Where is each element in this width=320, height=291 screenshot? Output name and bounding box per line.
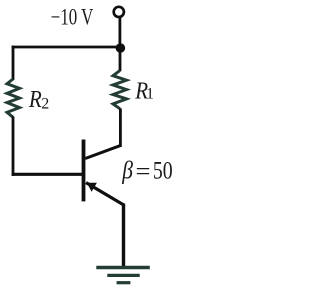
wire left vertical upper [12, 46, 15, 80]
transistor Q1 emitter lead [86, 183, 124, 206]
svg-text:1: 1 [146, 86, 154, 103]
terminal T1 (-10 V supply terminal) [114, 7, 124, 17]
svg-text:2: 2 [41, 95, 49, 112]
transistor Q1 emitter arrowhead (PNP) [87, 183, 97, 192]
svg-text:=: = [136, 159, 151, 186]
resistor R1 [113, 70, 127, 108]
node A junction dot [116, 43, 126, 53]
wire left vertical lower [12, 117, 15, 176]
resistor R2 [7, 79, 20, 117]
svg-text:−10 V: −10 V [51, 4, 94, 29]
wire base horizontal [12, 173, 82, 176]
wire emitter vertical [122, 204, 125, 268]
ground bar 3 [117, 281, 131, 284]
ground bar 1 [96, 266, 150, 270]
svg-text:R: R [28, 86, 42, 113]
wire R1 bottom [119, 108, 122, 147]
ground bar 2 [107, 274, 139, 277]
svg-text:β: β [121, 157, 133, 185]
transistor Q1 collector lead [85, 145, 121, 158]
svg-text:50: 50 [153, 158, 173, 185]
wire top horizontal [12, 46, 121, 49]
transistor Q1 base bar [82, 140, 86, 202]
wire terminal to node A [119, 17, 122, 48]
wire R1 top [119, 48, 122, 71]
